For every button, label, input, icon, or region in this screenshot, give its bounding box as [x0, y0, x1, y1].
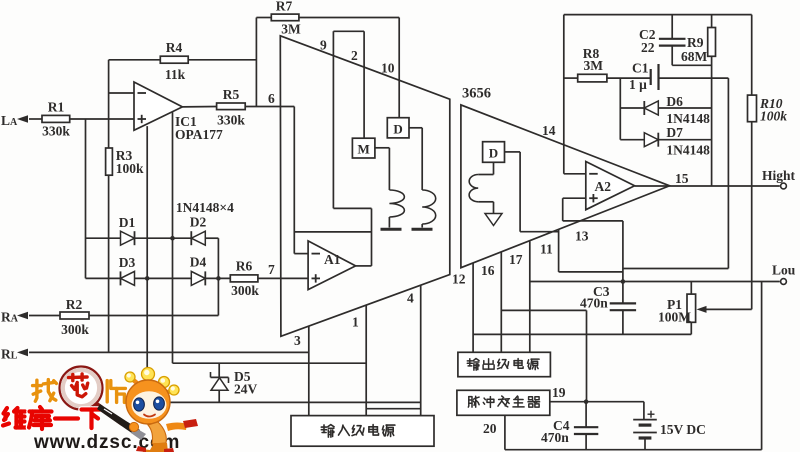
wire [550, 401, 644, 403]
wire [478, 174, 493, 176]
wire [505, 151, 521, 153]
wire [217, 238, 219, 315]
wire [473, 333, 691, 335]
svg-text:24V: 24V [234, 382, 258, 397]
svg-text:17: 17 [509, 252, 523, 267]
capacitor C1 1u [629, 61, 659, 93]
svg-text:3: 3 [294, 333, 301, 348]
wire [371, 208, 373, 266]
wire [493, 162, 495, 174]
wire [29, 351, 309, 353]
wire [29, 118, 42, 120]
diode D4 [190, 255, 207, 286]
input terminal LA arrow [17, 115, 28, 123]
svg-text:300k: 300k [61, 322, 89, 337]
svg-text:100k: 100k [760, 109, 787, 124]
resistor R7 [271, 0, 301, 36]
wire [366, 408, 421, 410]
modulator box M [352, 138, 375, 158]
label: input stage power (shu ru ji dian yuan) [321, 425, 395, 438]
svg-text:10: 10 [381, 61, 395, 76]
transformer winding (D side) [422, 190, 436, 224]
svg-text:7: 7 [268, 262, 275, 277]
wire [607, 77, 650, 79]
svg-text:R9: R9 [687, 35, 704, 50]
wire [258, 277, 308, 279]
resistor R5 [217, 87, 246, 128]
wire [421, 224, 423, 228]
wire [409, 127, 422, 129]
node pin 16 label [481, 263, 495, 278]
transformer winding (sync) [469, 175, 478, 202]
node junction [621, 279, 626, 284]
ground (open triangle) [485, 214, 502, 226]
resistor R3 [106, 148, 144, 176]
wire [108, 60, 110, 148]
node pin 9 label [320, 38, 327, 53]
svg-text:3M: 3M [584, 58, 604, 73]
svg-text:2: 2 [351, 48, 358, 63]
wire [293, 107, 295, 254]
svg-text:OPA177: OPA177 [175, 127, 223, 142]
battery 15V DC [633, 402, 706, 450]
svg-text:68M: 68M [681, 49, 708, 64]
wire [530, 281, 780, 283]
svg-text:16: 16 [481, 263, 495, 278]
wire [294, 231, 371, 233]
svg-text:19: 19 [552, 385, 566, 400]
wire [564, 173, 586, 175]
svg-text:470n: 470n [580, 296, 608, 311]
svg-text:R7: R7 [276, 0, 293, 14]
demodulator box D2 [483, 142, 505, 163]
op-amp A2 [586, 162, 635, 210]
svg-text:3M: 3M [281, 21, 301, 36]
node pin 10 label [381, 61, 395, 76]
wire [89, 315, 218, 317]
svg-text:100k: 100k [116, 161, 144, 176]
capacitor C3 470n [580, 282, 636, 335]
input terminal RL arrow [17, 349, 28, 357]
node pin 4 label [407, 291, 414, 306]
svg-text:100M: 100M [658, 310, 691, 325]
wire [356, 265, 372, 267]
resistor R8 [578, 46, 607, 82]
wire [500, 252, 502, 352]
resistor R9 [681, 15, 716, 64]
wire [620, 139, 644, 141]
node pin 12 label [452, 272, 466, 287]
diode D6 [644, 94, 683, 115]
wire [333, 207, 371, 209]
svg-text:M: M [357, 142, 369, 157]
potentiometer P1 100M [658, 282, 752, 335]
svg-text:11: 11 [540, 242, 553, 257]
block: output stage power supply [458, 352, 551, 376]
svg-text:D2: D2 [190, 215, 207, 230]
svg-text:Hight: Hight [762, 168, 796, 183]
label: pulse generator (mai chong fa sheng qi) [468, 396, 539, 407]
wire [109, 59, 161, 61]
wire [421, 128, 423, 190]
transformer core bar [381, 228, 402, 231]
wire [255, 18, 257, 107]
svg-text:C1: C1 [632, 61, 649, 76]
wire [308, 326, 310, 416]
svg-text:A2: A2 [595, 179, 612, 194]
wire [205, 277, 230, 279]
wire [333, 30, 364, 32]
node LA label [1, 113, 18, 128]
wire [563, 197, 586, 199]
wire [420, 285, 422, 415]
wire [727, 78, 729, 268]
wire [109, 92, 134, 94]
wire [245, 106, 294, 108]
svg-text:D3: D3 [119, 255, 136, 270]
node junction [170, 236, 175, 241]
wire [559, 271, 623, 273]
wire [146, 126, 148, 402]
node pin 1 label [352, 315, 359, 330]
label 1N4148 [666, 111, 710, 126]
op-amp IC1 OPA177 [134, 82, 223, 142]
wire [388, 148, 390, 190]
label 1N4148 [666, 143, 710, 158]
svg-text:1N4148: 1N4148 [666, 143, 710, 158]
node pin 20 label [483, 421, 497, 436]
transformer core bar [412, 228, 433, 231]
wire [375, 147, 390, 149]
node pin 11 label [540, 242, 553, 257]
svg-text:12: 12 [452, 272, 466, 287]
node pin 17 label [509, 252, 523, 267]
svg-text:470n: 470n [541, 430, 569, 445]
isolation amplifier input block (trapezoid) [280, 36, 450, 337]
wire [623, 268, 729, 270]
block: input stage power supply [291, 416, 434, 447]
output terminal Lou [772, 263, 796, 285]
wire [658, 139, 711, 141]
diode D1 [119, 215, 136, 245]
svg-text:20: 20 [483, 421, 497, 436]
label: output stage power (shu chu ji dian yuan) [467, 359, 539, 371]
wire [501, 309, 586, 311]
wire [205, 237, 218, 239]
resistor R6 [230, 259, 259, 299]
node junction [216, 276, 221, 281]
wire [294, 253, 308, 255]
svg-text:1 μ: 1 μ [629, 77, 647, 92]
wire [619, 78, 621, 140]
wire [563, 220, 623, 222]
wire [563, 15, 565, 174]
wire [472, 263, 474, 352]
transformer winding (M side) [389, 190, 404, 217]
node pin 15 label [675, 171, 689, 186]
wire [218, 391, 220, 403]
svg-text:330k: 330k [42, 124, 70, 139]
wire [182, 106, 216, 108]
resistor R10 [748, 15, 788, 124]
svg-text:D7: D7 [666, 125, 683, 140]
mascot cartoon (dzsc) [97, 368, 198, 452]
svg-text:D1: D1 [119, 215, 136, 230]
svg-text:1N4148: 1N4148 [666, 111, 710, 126]
node pin 19 label [552, 385, 566, 400]
svg-text:11k: 11k [165, 67, 186, 82]
wire [299, 17, 399, 19]
svg-text:9: 9 [320, 38, 327, 53]
wire [108, 175, 110, 352]
wire [659, 77, 729, 79]
wire [586, 310, 588, 401]
diode D3 [119, 255, 136, 285]
watermark logo dzsc [3, 367, 180, 452]
node pin 2 label [351, 48, 358, 63]
diode D7 [644, 125, 683, 147]
svg-text:D6: D6 [666, 94, 683, 109]
svg-text:R5: R5 [223, 87, 240, 102]
wire [218, 363, 220, 377]
svg-text:R6: R6 [236, 259, 253, 274]
wire [256, 17, 271, 19]
svg-text:R1: R1 [48, 100, 65, 115]
wire [529, 241, 531, 352]
wire [505, 449, 762, 451]
wire [478, 201, 493, 203]
node pin 14 label [542, 123, 556, 138]
wire [658, 107, 711, 109]
wire [620, 107, 644, 109]
node RL label [1, 347, 18, 362]
wire [761, 282, 763, 450]
wire [135, 277, 192, 279]
node pin 13 label [575, 229, 589, 244]
wire [85, 119, 87, 278]
isolation amplifier output block 3656 (triangle) [461, 105, 670, 268]
svg-text:14: 14 [542, 123, 556, 138]
svg-text:330k: 330k [217, 113, 245, 128]
wire [493, 202, 495, 214]
node pin 3 label [294, 333, 301, 348]
resistor R4 [160, 40, 188, 82]
resistor R2 [60, 297, 89, 337]
wire [86, 277, 121, 279]
demodulator box D [387, 118, 409, 138]
wire [711, 56, 713, 186]
capacitor C2 22 [639, 15, 686, 66]
wire [388, 217, 390, 228]
svg-text:4: 4 [407, 291, 414, 306]
svg-text:R4: R4 [166, 40, 183, 55]
wire [29, 315, 60, 317]
svg-text:D4: D4 [190, 255, 207, 270]
svg-text:3656: 3656 [462, 86, 491, 102]
wire [365, 305, 367, 415]
svg-text:R2: R2 [66, 297, 83, 312]
wire [147, 401, 421, 403]
node pin 7 label [268, 262, 275, 277]
wire [558, 229, 560, 272]
wire [564, 77, 578, 79]
node RA label [1, 310, 19, 325]
wire [173, 362, 367, 364]
wire [70, 118, 134, 120]
wire [398, 18, 400, 118]
svg-text:1: 1 [352, 315, 359, 330]
node junction [584, 399, 589, 404]
svg-text:Lou: Lou [772, 263, 796, 278]
wire [519, 152, 521, 232]
resistor R1 [42, 100, 70, 139]
svg-text:D: D [393, 122, 402, 137]
diode D2 [190, 215, 207, 246]
node junction [145, 276, 150, 281]
wire [135, 237, 192, 239]
wire [751, 122, 753, 310]
wire [562, 198, 564, 221]
svg-text:300k: 300k [231, 283, 259, 298]
wire [622, 221, 624, 282]
svg-text:15: 15 [675, 171, 689, 186]
svg-text:A1: A1 [324, 252, 341, 267]
wire [363, 31, 365, 138]
wire [188, 59, 256, 61]
svg-text:1N4148×4: 1N4148×4 [176, 200, 234, 215]
label 3656 [462, 86, 491, 102]
wire [332, 31, 334, 208]
wire [504, 415, 506, 449]
wire [564, 14, 752, 16]
wire [520, 231, 559, 233]
svg-text:22: 22 [641, 40, 655, 55]
svg-text:D: D [489, 146, 498, 161]
output terminal Hight [762, 168, 796, 189]
wire [635, 185, 780, 187]
input terminal RA arrow [17, 312, 28, 320]
label 1N4148x4 [176, 200, 234, 215]
svg-text:6: 6 [268, 91, 275, 106]
wire [172, 112, 174, 363]
zener diode D5 24V [211, 369, 258, 397]
op-amp A1 [308, 241, 356, 290]
svg-text:13: 13 [575, 229, 589, 244]
svg-text:15V DC: 15V DC [660, 422, 706, 437]
block: pulse generator [457, 390, 550, 415]
wire [672, 64, 711, 66]
capacitor C4 470n [541, 402, 598, 450]
node pin 6 label [268, 91, 275, 106]
wire [86, 237, 121, 239]
